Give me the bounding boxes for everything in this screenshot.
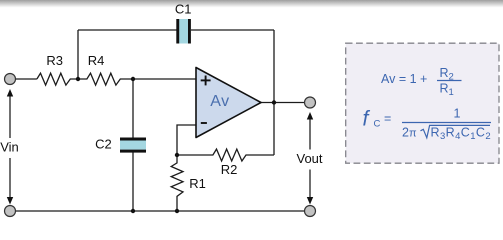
svg-text:1: 1: [454, 107, 461, 121]
svg-text:R1: R1: [189, 176, 206, 191]
svg-text:R3: R3: [46, 53, 63, 68]
svg-text:Vin: Vin: [0, 140, 19, 155]
svg-text:Av: Av: [210, 93, 229, 110]
svg-text:=: =: [384, 112, 391, 126]
svg-text:R4: R4: [88, 53, 105, 68]
svg-text:R2: R2: [221, 162, 238, 177]
svg-text:Av = 1 +: Av = 1 +: [381, 72, 427, 86]
svg-text:2π: 2π: [402, 126, 417, 140]
svg-text:C2: C2: [95, 137, 112, 152]
svg-text:C1: C1: [175, 2, 192, 17]
svg-text:Vout: Vout: [296, 151, 322, 166]
svg-text:C: C: [374, 119, 381, 130]
